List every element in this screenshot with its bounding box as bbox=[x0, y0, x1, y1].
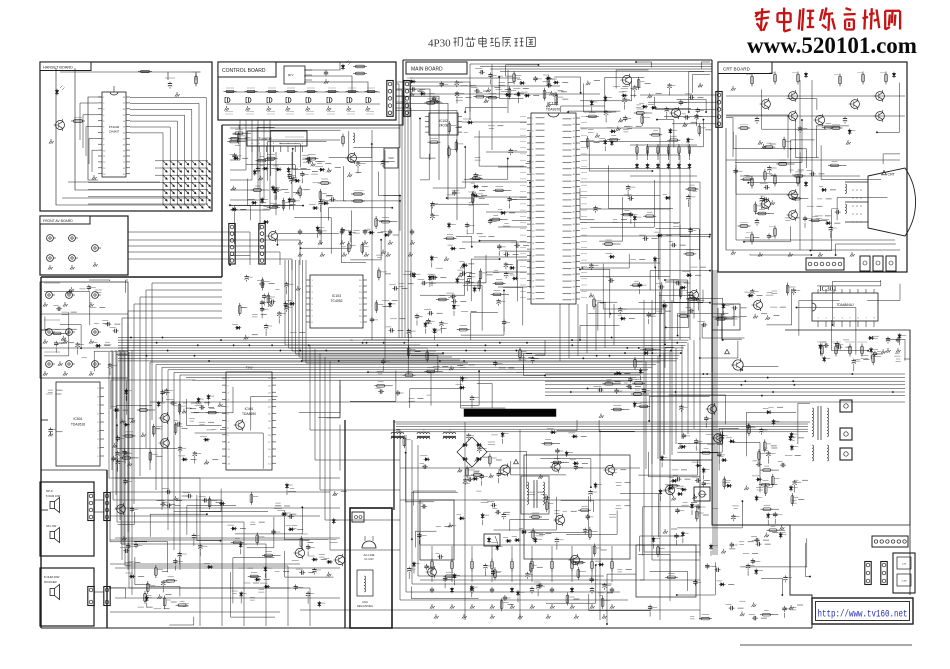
capacitor C779 bbox=[498, 244, 500, 246]
ground bbox=[538, 474, 543, 479]
value label bbox=[895, 353, 899, 355]
capacitor C125 bbox=[411, 229, 413, 231]
wire stub bbox=[128, 418, 134, 420]
wire ic301 v bbox=[663, 300, 665, 455]
wire stub bbox=[191, 402, 197, 404]
ground bbox=[752, 602, 757, 607]
value label bbox=[872, 335, 879, 337]
value label bbox=[598, 592, 605, 594]
diode D307 bbox=[312, 559, 318, 561]
ground bbox=[381, 250, 386, 255]
resistor R412 bbox=[872, 355, 875, 363]
diode D350 bbox=[125, 389, 127, 395]
wire bbox=[294, 218, 331, 254]
HANSET BOARD outline bbox=[40, 62, 212, 211]
wire headset left pins bbox=[80, 103, 98, 140]
wire stub bbox=[508, 367, 514, 369]
wire bbox=[540, 459, 591, 488]
wire ctl-down bbox=[230, 120, 246, 170]
resistor R989 bbox=[230, 140, 238, 143]
resistor R350 bbox=[779, 163, 787, 166]
ground bbox=[244, 335, 249, 340]
power transistor Q801 pwr bbox=[500, 465, 510, 475]
wire bbox=[886, 340, 905, 361]
value label bbox=[61, 339, 67, 341]
wire stub bbox=[245, 137, 251, 139]
wire bbox=[350, 371, 396, 402]
wire left fan bbox=[146, 290, 222, 448]
ground bbox=[549, 91, 554, 96]
resistor R351 bbox=[633, 284, 641, 287]
wire left fan bbox=[122, 318, 222, 560]
ground (pwr row) bbox=[434, 614, 439, 619]
connector CON6b speaker A main bbox=[88, 493, 94, 521]
wire stub bbox=[768, 213, 774, 215]
wire stub bbox=[695, 446, 697, 451]
wire bbox=[461, 376, 506, 408]
wire stub bbox=[687, 202, 689, 207]
connector CON7b speaker B main bbox=[88, 587, 94, 606]
resistor R210 bbox=[356, 72, 365, 75]
SAW filter Z101 bbox=[384, 148, 398, 168]
net label bbox=[275, 570, 280, 572]
capacitor C934 bbox=[382, 359, 384, 361]
wire bbox=[174, 489, 221, 512]
ground bbox=[678, 444, 683, 449]
svg-text:8: 8 bbox=[532, 162, 534, 164]
wire stub bbox=[624, 105, 626, 110]
wire bottom loop h bbox=[115, 597, 340, 599]
wire stub bbox=[761, 617, 767, 619]
connector CON8 (crt bottom row) bbox=[806, 258, 844, 270]
wire stub bbox=[263, 189, 269, 191]
wire pwr h5 bbox=[300, 609, 700, 611]
svg-text:10: 10 bbox=[359, 316, 362, 318]
net label bbox=[467, 233, 474, 235]
wire stub bbox=[320, 207, 322, 212]
svg-text:16: 16 bbox=[123, 168, 125, 170]
resistor R341 bbox=[835, 346, 838, 354]
wire stub bbox=[471, 403, 473, 408]
capacitor C254 bbox=[705, 416, 707, 418]
resistor R846 bbox=[492, 218, 500, 221]
wire bbox=[761, 578, 782, 595]
diode D151 bbox=[429, 275, 431, 281]
svg-text:19: 19 bbox=[268, 428, 271, 430]
svg-text:8: 8 bbox=[97, 397, 99, 399]
resistor R729 bbox=[593, 299, 596, 307]
wire bbox=[883, 154, 900, 164]
wire stub bbox=[794, 487, 796, 492]
resistor R1 (control) bbox=[226, 90, 234, 92]
net label bbox=[691, 266, 698, 268]
wire headset fan bbox=[130, 121, 177, 204]
transistor Q34 (CRT) bbox=[851, 100, 860, 109]
RCA jack J19 bbox=[92, 361, 99, 368]
svg-text:9: 9 bbox=[97, 388, 99, 390]
capacitor C920 bbox=[810, 173, 812, 175]
wire bbox=[339, 425, 341, 471]
wire stub bbox=[629, 318, 635, 320]
value label bbox=[460, 364, 465, 366]
resistor R255 bbox=[791, 496, 794, 504]
ground (control) bbox=[365, 106, 370, 111]
value label bbox=[469, 202, 474, 204]
svg-text:http://www.tv160.net: http://www.tv160.net bbox=[818, 609, 908, 621]
net label bbox=[403, 273, 408, 275]
capacitor C898 bbox=[629, 377, 631, 379]
svg-text:5: 5 bbox=[97, 422, 99, 424]
wire bbox=[693, 75, 711, 93]
diode D124 bbox=[505, 540, 511, 542]
wire stub bbox=[382, 366, 384, 371]
junction bbox=[580, 92, 582, 94]
capacitor C208 bbox=[689, 96, 691, 98]
wire stub bbox=[301, 178, 303, 183]
value label bbox=[353, 230, 359, 232]
wire v-bundle bbox=[285, 260, 420, 345]
resistor R375 bbox=[688, 188, 696, 191]
diode D977 bbox=[274, 188, 276, 194]
junction bbox=[782, 594, 784, 596]
capacitor C860 bbox=[768, 233, 770, 235]
net label bbox=[491, 542, 497, 544]
net label bbox=[790, 169, 794, 171]
capacitor C702 bbox=[823, 345, 825, 347]
wire bbox=[767, 289, 792, 325]
resistor R566 bbox=[495, 282, 503, 285]
wire bottom loop h bbox=[115, 537, 340, 539]
wire ctl-down bbox=[230, 120, 252, 180]
resistor R299 bbox=[646, 215, 654, 218]
ground bbox=[458, 273, 463, 278]
net label bbox=[462, 482, 470, 484]
wire ic101 right bbox=[580, 249, 700, 251]
speaker SP1 bbox=[50, 502, 55, 509]
wire stub bbox=[659, 496, 661, 501]
wire v-bundle bbox=[289, 260, 429, 348]
capacitor C816 bbox=[165, 388, 167, 390]
resistor R446 bbox=[589, 529, 592, 537]
resistor R243 bbox=[459, 328, 467, 331]
value label bbox=[409, 398, 415, 400]
resistor R439 bbox=[634, 359, 637, 367]
wire stub bbox=[780, 306, 786, 308]
junction bbox=[810, 250, 812, 252]
HANSET BOARD label bbox=[40, 62, 91, 71]
wire h-bus riser bbox=[687, 343, 689, 434]
RCA jack J17 bbox=[46, 361, 53, 368]
wire stub bbox=[240, 141, 246, 143]
wire stub bbox=[292, 205, 294, 210]
net label bbox=[452, 189, 459, 191]
resistor R607 bbox=[144, 593, 147, 601]
wire bbox=[471, 259, 499, 301]
resistor R317 (CRT) bbox=[774, 176, 777, 184]
resistor R310 (CRT) bbox=[751, 76, 754, 84]
wire stub bbox=[473, 471, 479, 473]
value label bbox=[156, 425, 162, 427]
ground bbox=[291, 177, 296, 182]
secondary block outline bbox=[524, 455, 630, 559]
wire stub bbox=[278, 319, 280, 324]
svg-text:CRT: CRT bbox=[888, 173, 896, 177]
wire stub bbox=[523, 245, 529, 247]
bottom border wire bbox=[41, 627, 812, 629]
value label bbox=[494, 269, 498, 271]
resistor R213 bbox=[403, 438, 406, 446]
wire bbox=[505, 251, 530, 288]
svg-text:55: 55 bbox=[573, 268, 576, 270]
connector CON6 speaker A bbox=[104, 493, 110, 521]
svg-text:10: 10 bbox=[532, 174, 535, 176]
wire control ir bbox=[304, 62, 340, 70]
resistor R286 bbox=[250, 494, 253, 502]
wire bbox=[412, 586, 479, 598]
ground bbox=[648, 94, 653, 99]
resistor R271 bbox=[581, 509, 589, 512]
net label bbox=[382, 299, 389, 301]
wire stub bbox=[728, 317, 734, 319]
diode D559 bbox=[410, 81, 416, 83]
wire bbox=[293, 149, 311, 170]
wire h-bus riser bbox=[693, 340, 695, 429]
connector CON11 (right col b) bbox=[881, 562, 887, 585]
wire stub bbox=[494, 87, 500, 89]
wire stub bbox=[290, 513, 296, 515]
ground (control) bbox=[305, 106, 310, 111]
wire stub bbox=[174, 566, 176, 571]
wire bl-fan bbox=[121, 352, 266, 626]
diode D635 bbox=[821, 189, 827, 191]
wire stub bbox=[705, 423, 707, 428]
svg-text:3: 3 bbox=[312, 292, 314, 294]
wire stub bbox=[166, 593, 172, 595]
resistor R590 bbox=[476, 95, 484, 98]
wire bbox=[561, 501, 594, 512]
AV jack J5 bbox=[92, 245, 99, 252]
diode D943 bbox=[691, 503, 693, 509]
wire ic101 right bbox=[580, 168, 690, 170]
capacitor C598 bbox=[643, 388, 645, 390]
diode D930 bbox=[453, 304, 455, 310]
wire crt bus2 bbox=[736, 135, 895, 240]
resistor R134 bbox=[667, 147, 669, 154]
divider horizontal bbox=[41, 469, 107, 471]
net label bbox=[740, 600, 746, 602]
diode D396 bbox=[474, 286, 476, 292]
wire pwr v1 bbox=[464, 422, 466, 620]
capacitor C598 bbox=[498, 471, 500, 473]
url box http://www.tv160.net bbox=[812, 598, 913, 624]
wire control drop bbox=[396, 90, 402, 338]
value label bbox=[790, 606, 797, 608]
svg-text:G: G bbox=[258, 143, 260, 145]
wire stub bbox=[761, 313, 767, 315]
capacitor C733 bbox=[684, 116, 686, 118]
wire stub bbox=[190, 408, 196, 410]
wire tuner down bbox=[259, 152, 261, 230]
wire bbox=[836, 244, 896, 255]
capacitor C925 bbox=[179, 446, 181, 448]
ground bbox=[698, 83, 703, 88]
net label bbox=[244, 582, 251, 584]
resistor R113 bbox=[354, 200, 363, 202]
wire headset left pins bbox=[86, 127, 98, 156]
wire stub bbox=[497, 472, 503, 474]
wire bbox=[677, 100, 707, 113]
diode D396 bbox=[288, 167, 290, 173]
wire bbox=[464, 159, 508, 180]
capacitor C361 bbox=[261, 306, 263, 308]
capacitor C953 bbox=[285, 305, 287, 307]
capacitor C651 bbox=[307, 544, 309, 546]
right region box bbox=[785, 330, 910, 525]
junction bbox=[835, 254, 837, 256]
resistor R989 bbox=[577, 570, 580, 578]
bus junctions bbox=[484, 350, 486, 352]
capacitor C307 bbox=[199, 406, 201, 408]
svg-text:56: 56 bbox=[573, 274, 576, 276]
wire stub bbox=[741, 315, 747, 317]
svg-text:IC401: IC401 bbox=[245, 407, 254, 411]
junction bbox=[741, 369, 743, 371]
wire stub bbox=[440, 328, 446, 330]
wire stub bbox=[99, 306, 105, 308]
svg-text:5: 5 bbox=[312, 304, 314, 306]
ground (tuner row2) bbox=[342, 252, 347, 257]
wire h-bus bbox=[118, 347, 684, 349]
ic301 region boundary bbox=[660, 292, 712, 460]
transistor Q101 bbox=[348, 154, 357, 163]
capacitor C131 bbox=[732, 514, 734, 516]
capacitor C607 bbox=[131, 506, 133, 508]
value label bbox=[48, 389, 53, 391]
diode D33 (CRT) bbox=[805, 181, 807, 187]
wire stub bbox=[538, 491, 544, 493]
resistor R510 bbox=[446, 575, 454, 578]
wire diode row bbox=[630, 175, 697, 177]
svg-text:IC601: IC601 bbox=[73, 417, 82, 421]
wire ic101 right drop bbox=[659, 128, 661, 340]
net label bbox=[499, 367, 506, 369]
diode D32 (CRT) bbox=[893, 72, 895, 78]
resistor R186 bbox=[586, 139, 589, 147]
wire stub bbox=[684, 478, 690, 480]
resistor string R82 bbox=[471, 546, 473, 560]
resistor R409 bbox=[494, 570, 497, 578]
svg-text:9: 9 bbox=[532, 168, 534, 170]
resistor R751 bbox=[508, 89, 511, 97]
svg-text:28: 28 bbox=[123, 97, 125, 99]
wire stub bbox=[442, 365, 448, 367]
resistor R660 bbox=[754, 204, 757, 212]
wire stub bbox=[798, 169, 804, 171]
capacitor C468 bbox=[464, 478, 466, 480]
wire stub bbox=[581, 435, 587, 437]
wire stub bbox=[607, 592, 613, 594]
value label bbox=[488, 125, 495, 127]
wire bbox=[494, 497, 557, 530]
junction bbox=[705, 111, 707, 113]
capacitor C491 bbox=[410, 88, 412, 90]
connector CON10 (right col a) bbox=[865, 562, 871, 585]
capacitor C755 bbox=[330, 199, 332, 201]
wire stub bbox=[528, 356, 534, 358]
wire bbox=[546, 565, 596, 603]
svg-text:23: 23 bbox=[268, 400, 271, 402]
label (control) bbox=[225, 111, 233, 113]
solid black bar bbox=[464, 409, 556, 417]
wire ic301 v bbox=[671, 300, 673, 455]
wire stub bbox=[297, 528, 303, 530]
resistor R191 bbox=[532, 530, 535, 538]
label (control) bbox=[327, 111, 335, 113]
wire h-bus riser bbox=[645, 361, 647, 469]
capacitor C681 bbox=[514, 245, 516, 247]
diode D283 bbox=[661, 455, 663, 461]
wire bbox=[257, 127, 275, 171]
svg-text:8 OHM 10W: 8 OHM 10W bbox=[46, 494, 61, 498]
wire stub bbox=[652, 544, 654, 549]
wire h-bus bbox=[118, 357, 678, 359]
wire stub bbox=[133, 457, 139, 459]
junction bbox=[664, 344, 666, 346]
capacitor C820 bbox=[630, 212, 632, 214]
svg-text:11: 11 bbox=[359, 310, 362, 312]
RCA jack J18 bbox=[66, 361, 73, 368]
svg-text:14: 14 bbox=[359, 292, 362, 294]
wire stub bbox=[471, 592, 473, 597]
net label bbox=[238, 567, 244, 569]
junction bbox=[367, 371, 369, 373]
capacitor C115 bbox=[290, 177, 292, 179]
capacitor C187 bbox=[532, 356, 534, 358]
push button SW5 bbox=[306, 98, 308, 103]
wire ic101 left bbox=[474, 136, 527, 138]
svg-text:25: 25 bbox=[532, 268, 535, 270]
resistor R972 bbox=[239, 305, 242, 313]
wire stub bbox=[477, 233, 483, 235]
junction bbox=[399, 195, 401, 197]
ground (pwr row) bbox=[518, 614, 523, 619]
capacitor C105 bbox=[392, 287, 394, 289]
wire stub bbox=[124, 458, 126, 463]
ground (jackrow) bbox=[89, 302, 94, 307]
wire stub bbox=[747, 571, 749, 576]
connector CON2 (main board left) bbox=[404, 81, 410, 117]
diode D468 bbox=[420, 93, 426, 95]
svg-text:46: 46 bbox=[573, 212, 576, 214]
capacitor C242 bbox=[780, 464, 782, 466]
junction bbox=[503, 290, 505, 292]
capacitor (CRT) bbox=[756, 219, 758, 221]
capacitor C868 bbox=[116, 451, 118, 453]
svg-text:37: 37 bbox=[573, 155, 576, 157]
diode D165 bbox=[472, 195, 478, 197]
svg-text:CRT BOARD: CRT BOARD bbox=[723, 66, 751, 71]
wire bbox=[603, 264, 665, 309]
value label bbox=[331, 539, 337, 541]
net label bbox=[563, 510, 567, 512]
net label bbox=[138, 606, 144, 608]
resistor R296 bbox=[430, 141, 438, 144]
wire stub bbox=[264, 579, 270, 581]
junction bbox=[411, 538, 413, 540]
wire bbox=[677, 429, 722, 452]
wire bottom-left loop bbox=[119, 350, 121, 520]
ground bbox=[693, 494, 698, 499]
